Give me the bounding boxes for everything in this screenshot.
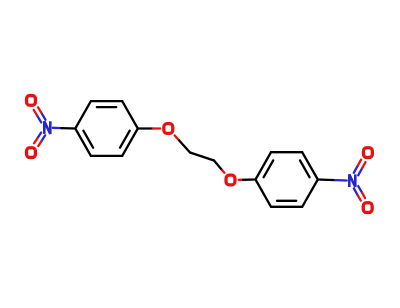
nitro group right: N=O double bond upper <box>358 168 362 175</box>
nitro group left: N=O double bond upper <box>41 113 45 120</box>
bond C4-N right <box>318 178 335 181</box>
nitro group right: N=O double bond lower <box>354 189 358 196</box>
bond CH2-CH2 <box>190 153 214 161</box>
atom label O nitro right top <box>363 148 372 158</box>
atom label O nitro left bottom <box>27 148 36 158</box>
atom label N left <box>44 121 50 134</box>
nitro group left: N=O double bond lower <box>37 133 41 139</box>
atom label N right <box>349 174 355 187</box>
benzene ring left inner double bond lines <box>97 106 116 108</box>
benzene ring left <box>75 101 91 128</box>
bond N-C1 left ring <box>53 127 61 130</box>
atom label O nitro left top <box>27 96 36 106</box>
bond O-C1 right ring <box>239 179 243 181</box>
bond CH2-O right <box>214 161 222 171</box>
bond C4-O ether left <box>138 127 153 129</box>
atom label O ether right <box>226 175 235 185</box>
atom label O ether left <box>164 124 173 134</box>
atom label O nitro right bottom <box>363 203 372 213</box>
benzene ring right inner double bond lines <box>264 160 274 177</box>
bond O-CH2 <box>175 136 180 141</box>
benzene ring right <box>256 152 272 179</box>
